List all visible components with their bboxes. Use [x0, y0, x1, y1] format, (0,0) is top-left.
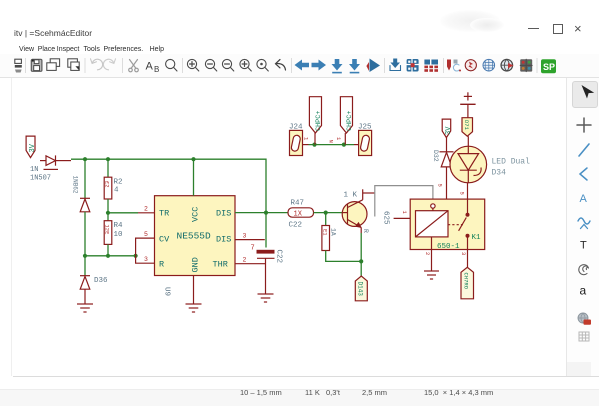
wire CV-R loop: [136, 238, 155, 263]
svg-text:CH7RO: CH7RO: [462, 273, 469, 290]
ground (below U9): [186, 304, 202, 312]
wire J24 to J25: [309, 144, 355, 146]
net label D143: [355, 276, 367, 301]
svg-text:1N507: 1N507: [30, 175, 51, 183]
svg-text:1: 1: [401, 211, 408, 215]
junction loop node: [134, 254, 138, 258]
net label CH7RO: [461, 267, 474, 299]
wire to ground below D36: [84, 289, 86, 304]
svg-text:R2: R2: [114, 179, 123, 187]
svg-text:DIS: DIS: [216, 209, 231, 219]
wire DIS net: [235, 212, 288, 214]
svg-text:7: 7: [251, 245, 255, 253]
wire emitter down: [360, 233, 362, 261]
svg-text:10: 10: [114, 231, 124, 239]
junction CHPC left: [312, 143, 316, 147]
pin THR stub: [235, 263, 266, 265]
svg-text:C22: C22: [275, 250, 283, 264]
diode D? 1N507: [40, 155, 71, 169]
svg-text:D34: D34: [492, 169, 507, 178]
wire switch bottom: [467, 236, 469, 267]
svg-text:2: 2: [424, 252, 431, 255]
wire left column upper: [84, 159, 86, 198]
svg-text:3: 3: [243, 233, 247, 240]
svg-text:1 K: 1 K: [344, 192, 358, 200]
junction base node: [324, 211, 328, 215]
right toolbar: [567, 78, 599, 376]
power flag CHPC+ (left): [309, 97, 322, 145]
wire R2 column upper: [107, 159, 109, 177]
svg-text:5: 5: [437, 184, 444, 187]
pin DIS2 stub: [235, 239, 265, 241]
junction emitter node: [359, 259, 363, 263]
svg-text:CHPC+: CHPC+: [346, 111, 354, 131]
diode D 1N862: [72, 176, 91, 212]
power flag 3V (left): [26, 136, 37, 158]
svg-text:NE555D: NE555D: [177, 231, 212, 242]
ground (below relay coil): [424, 271, 439, 279]
svg-text:£2: £2: [104, 181, 111, 188]
svg-text:D143: D143: [356, 282, 363, 297]
svg-text:U9: U9: [163, 287, 171, 296]
canvas frame: [11, 78, 12, 376]
svg-text:2: 2: [144, 206, 148, 213]
wire gray collector net: [375, 186, 433, 217]
svg-text:4: 4: [114, 187, 119, 195]
wire R47 to base: [314, 212, 343, 214]
junction TR node: [106, 211, 110, 215]
svg-text:THR: THR: [213, 260, 228, 270]
wire D32 to relay: [446, 167, 448, 199]
connector J25: [358, 124, 372, 156]
wire D32 column: [446, 138, 448, 152]
toolbar: [0, 54, 599, 77]
svg-text:3V: 3V: [29, 143, 37, 152]
svg-text:3: 3: [144, 256, 148, 263]
power flag 3V (right): [442, 119, 453, 138]
svg-text:CHPC+: CHPC+: [315, 111, 323, 131]
power symbol +: [460, 92, 475, 117]
power flag CHPC+ (right): [340, 97, 353, 145]
wire TR net: [108, 212, 138, 214]
ground (below D36): [77, 304, 93, 312]
svg-text:2: 2: [243, 257, 247, 264]
window controls: [528, 28, 539, 29]
junction left column: [83, 254, 87, 258]
svg-text:LED Dual: LED Dual: [492, 158, 531, 167]
svg-text:3V: 3V: [445, 126, 453, 135]
bottom-right faint panel: [567, 362, 591, 376]
wire bottom rail: [85, 255, 136, 257]
wire emitter return: [326, 251, 362, 262]
wire C22 bottom: [265, 258, 267, 294]
capacitor C22 (polarized): [257, 250, 283, 264]
junction R4 bottom: [106, 254, 110, 258]
wire left column lower: [84, 256, 86, 276]
svg-text:R4: R4: [114, 222, 124, 230]
svg-text:3: 3: [460, 252, 467, 255]
svg-text:C22: C22: [289, 222, 303, 230]
svg-text:12E: 12E: [104, 225, 111, 236]
wire R2 to junction: [107, 199, 109, 221]
svg-text:1: 1: [335, 137, 342, 141]
pin J25 stub: [354, 144, 359, 146]
junction CHPC right: [342, 143, 346, 147]
svg-text:J25: J25: [358, 124, 372, 132]
pin GND stub: [193, 276, 195, 305]
wire base resistor top: [325, 213, 327, 226]
diode D36: [80, 276, 108, 290]
net label D71: [462, 118, 473, 137]
wire R4 bottom: [107, 244, 109, 255]
status bar: [0, 389, 599, 406]
menu bar: [19, 46, 34, 53]
svg-text:DIS: DIS: [216, 235, 231, 245]
ground (below C22): [258, 294, 274, 302]
svg-text:TR: TR: [159, 209, 169, 219]
svg-text:CV: CV: [159, 235, 170, 245]
junction top rail B: [106, 157, 110, 161]
pin TR stub: [138, 212, 155, 214]
junction DIS/C22: [264, 211, 268, 215]
svg-text:5: 5: [459, 192, 466, 195]
svg-text:GND: GND: [191, 257, 201, 272]
resistor R4: [104, 221, 123, 245]
wire left column mid: [84, 212, 86, 256]
svg-text:R: R: [159, 260, 164, 270]
wire emitter to label: [360, 261, 362, 276]
resistor R2: [104, 177, 123, 199]
relay K1 body: [410, 199, 485, 251]
faint smudge artifact: [440, 10, 500, 32]
wire VCC: [193, 159, 195, 196]
svg-text:J24: J24: [289, 124, 303, 132]
svg-text:K1: K1: [472, 234, 482, 242]
resistor R47: [288, 200, 314, 230]
svg-text:R: R: [362, 229, 369, 233]
junction top rail VCC: [191, 157, 195, 161]
svg-text:D32: D32: [432, 150, 439, 162]
pin J24 stub: [303, 144, 309, 146]
svg-text:N: N: [328, 140, 335, 143]
svg-text:650-1: 650-1: [437, 243, 460, 251]
wire switch top: [467, 183, 469, 215]
svg-text:1N: 1N: [30, 166, 38, 174]
svg-text:E1: E1: [321, 229, 328, 236]
wire coil bottom: [431, 237, 433, 271]
op-amp U9 NE555D body: [155, 196, 236, 276]
svg-text:1NB62: 1NB62: [72, 176, 79, 194]
window title: [14, 28, 92, 38]
resistor RE (1A): [321, 226, 336, 251]
junction top rail A: [83, 157, 87, 161]
svg-text:1A: 1A: [330, 228, 337, 236]
svg-text:1: 1: [303, 137, 310, 141]
svg-text:625: 625: [382, 211, 390, 225]
wire top rail: [71, 159, 266, 247]
LED Dual D34: [450, 136, 487, 183]
svg-text:R47: R47: [291, 200, 305, 208]
svg-text:1X: 1X: [294, 211, 303, 219]
svg-text:D36: D36: [94, 277, 108, 285]
diode D32 (zener): [432, 150, 454, 167]
svg-text:VCC: VCC: [191, 207, 201, 222]
transistor Q (1 K): [342, 189, 375, 233]
svg-text:D71: D71: [463, 120, 470, 131]
svg-text:5: 5: [144, 231, 148, 238]
connector J24: [289, 124, 303, 156]
wire coil left pin: [394, 217, 416, 219]
